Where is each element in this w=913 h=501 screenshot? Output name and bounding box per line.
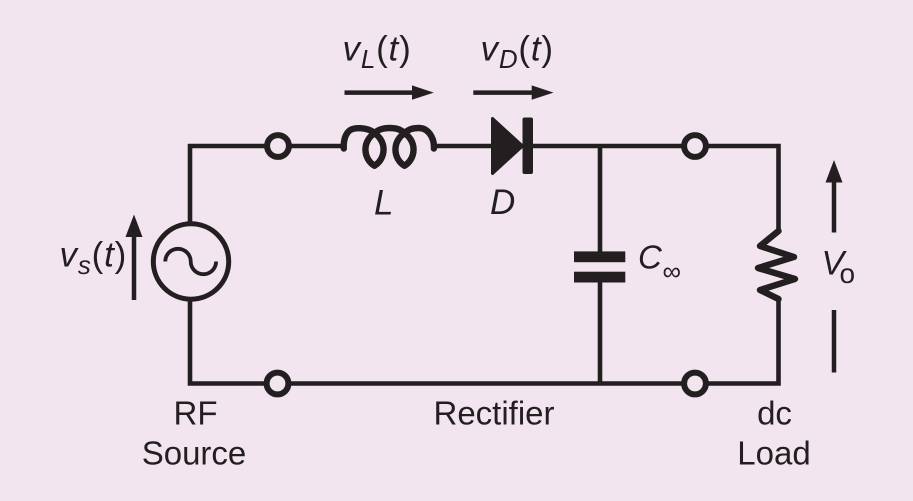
inductor L (hump 3) [405, 128, 434, 149]
arrow: v_L(t) direction arrow [345, 85, 434, 99]
inductor L (hump 2) [375, 128, 405, 133]
wire: capacitor branch top (junction at top bus) [598, 146, 603, 252]
svg-text:dc: dc [757, 395, 792, 432]
resistor (dc load) zigzag [758, 231, 795, 299]
node: top input terminal [267, 135, 289, 157]
svg-text:Source: Source [142, 435, 247, 472]
svg-text:∞: ∞ [663, 256, 682, 286]
svg-text:vL(t): vL(t) [343, 30, 412, 75]
arrow: V_o polarity arrow (positive side) [826, 160, 843, 233]
node: top output terminal [684, 135, 706, 157]
svg-text:vs(t): vs(t) [60, 236, 128, 281]
diode D (cathode bar) [523, 118, 534, 175]
V_o reference line (negative side) [832, 310, 837, 373]
inductor L (loop 1) [365, 133, 383, 166]
diode D (anode triangle) [493, 119, 523, 174]
capacitor C∞ top plate [574, 251, 625, 262]
capacitor C∞ bottom plate [574, 272, 625, 283]
wire: source top lead, top-left corner, top wire to inductor [190, 146, 343, 224]
wire: capacitor branch bottom (junction at bottom bus) [598, 282, 603, 383]
svg-text:L: L [374, 184, 393, 223]
svg-text:Rectifier: Rectifier [433, 395, 554, 432]
wire: inductor to diode to top-right corner, down to resistor [435, 146, 778, 232]
ac source (RF source) circle [153, 224, 228, 299]
node: bottom input terminal [267, 373, 289, 395]
arrow: v_D(t) direction arrow [473, 85, 553, 99]
inductor L (hump 1) [344, 128, 375, 148]
inductor L (loop 2) [395, 133, 413, 166]
svg-text:C: C [638, 239, 663, 276]
svg-text:Load: Load [737, 435, 810, 472]
arrow: v_s(t) polarity arrow [126, 215, 143, 301]
svg-text:RF: RF [174, 395, 218, 432]
node: bottom output terminal [684, 373, 706, 395]
ac source sine wave [165, 249, 216, 274]
svg-text:D: D [490, 183, 515, 222]
wire: resistor bottom, bottom-right corner, bottom bus, source bottom lead [190, 298, 779, 384]
svg-text:o: o [840, 258, 856, 289]
